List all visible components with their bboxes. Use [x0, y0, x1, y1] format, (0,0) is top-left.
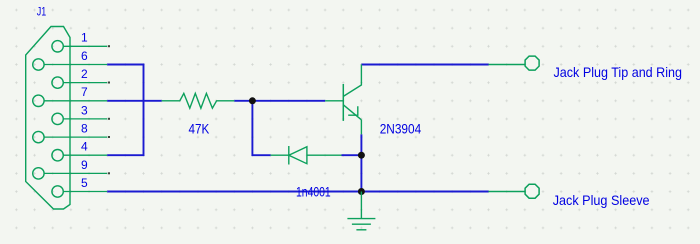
wire pin7 to resistor: [107, 100, 162, 102]
wire collector to tip-ring port: [361, 64, 488, 66]
junction node at resistor/base: [249, 97, 256, 104]
wire diode to emitter node: [342, 154, 362, 156]
svg-text:Jack Plug Sleeve: Jack Plug Sleeve: [553, 192, 650, 208]
wire pin6 to pin4 jumper: [107, 65, 143, 156]
connector J1 pin stub wires: [44, 46, 107, 191]
svg-text:2N3904: 2N3904: [380, 120, 422, 136]
svg-text:2: 2: [81, 67, 88, 81]
svg-text:8: 8: [81, 122, 88, 136]
svg-text:1n4001: 1n4001: [296, 184, 331, 200]
diode 1n4001: [271, 146, 342, 165]
svg-text:J1: J1: [37, 5, 47, 19]
wire junction down and to diode: [252, 101, 270, 155]
svg-text:7: 7: [81, 85, 88, 99]
junction node at emitter/pin5 wire: [358, 188, 365, 195]
svg-text:1: 1: [81, 31, 88, 45]
transistor Q1 2N3904: [325, 65, 361, 135]
connector J1 pin circles: [33, 41, 64, 198]
resistor 47K: [162, 93, 235, 108]
unconnected pin end markers: [108, 45, 110, 174]
svg-text:9: 9: [81, 158, 88, 172]
svg-text:6: 6: [81, 49, 88, 63]
wire resistor to transistor base: [234, 100, 325, 102]
wire emitter vertical: [360, 134, 362, 191]
port terminal Jack Plug Tip and Ring: [489, 56, 540, 70]
connector J1 outline: [26, 27, 70, 210]
junction node at diode/emitter: [358, 152, 365, 159]
port terminal Jack Plug Sleeve: [489, 184, 540, 198]
svg-text:4: 4: [81, 140, 88, 154]
svg-text:5: 5: [81, 176, 88, 190]
svg-text:Jack Plug Tip and Ring: Jack Plug Tip and Ring: [554, 64, 683, 80]
ground: [347, 192, 375, 230]
svg-text:47K: 47K: [189, 121, 210, 137]
wire pin5 to sleeve port: [107, 191, 488, 193]
svg-text:3: 3: [81, 103, 88, 117]
